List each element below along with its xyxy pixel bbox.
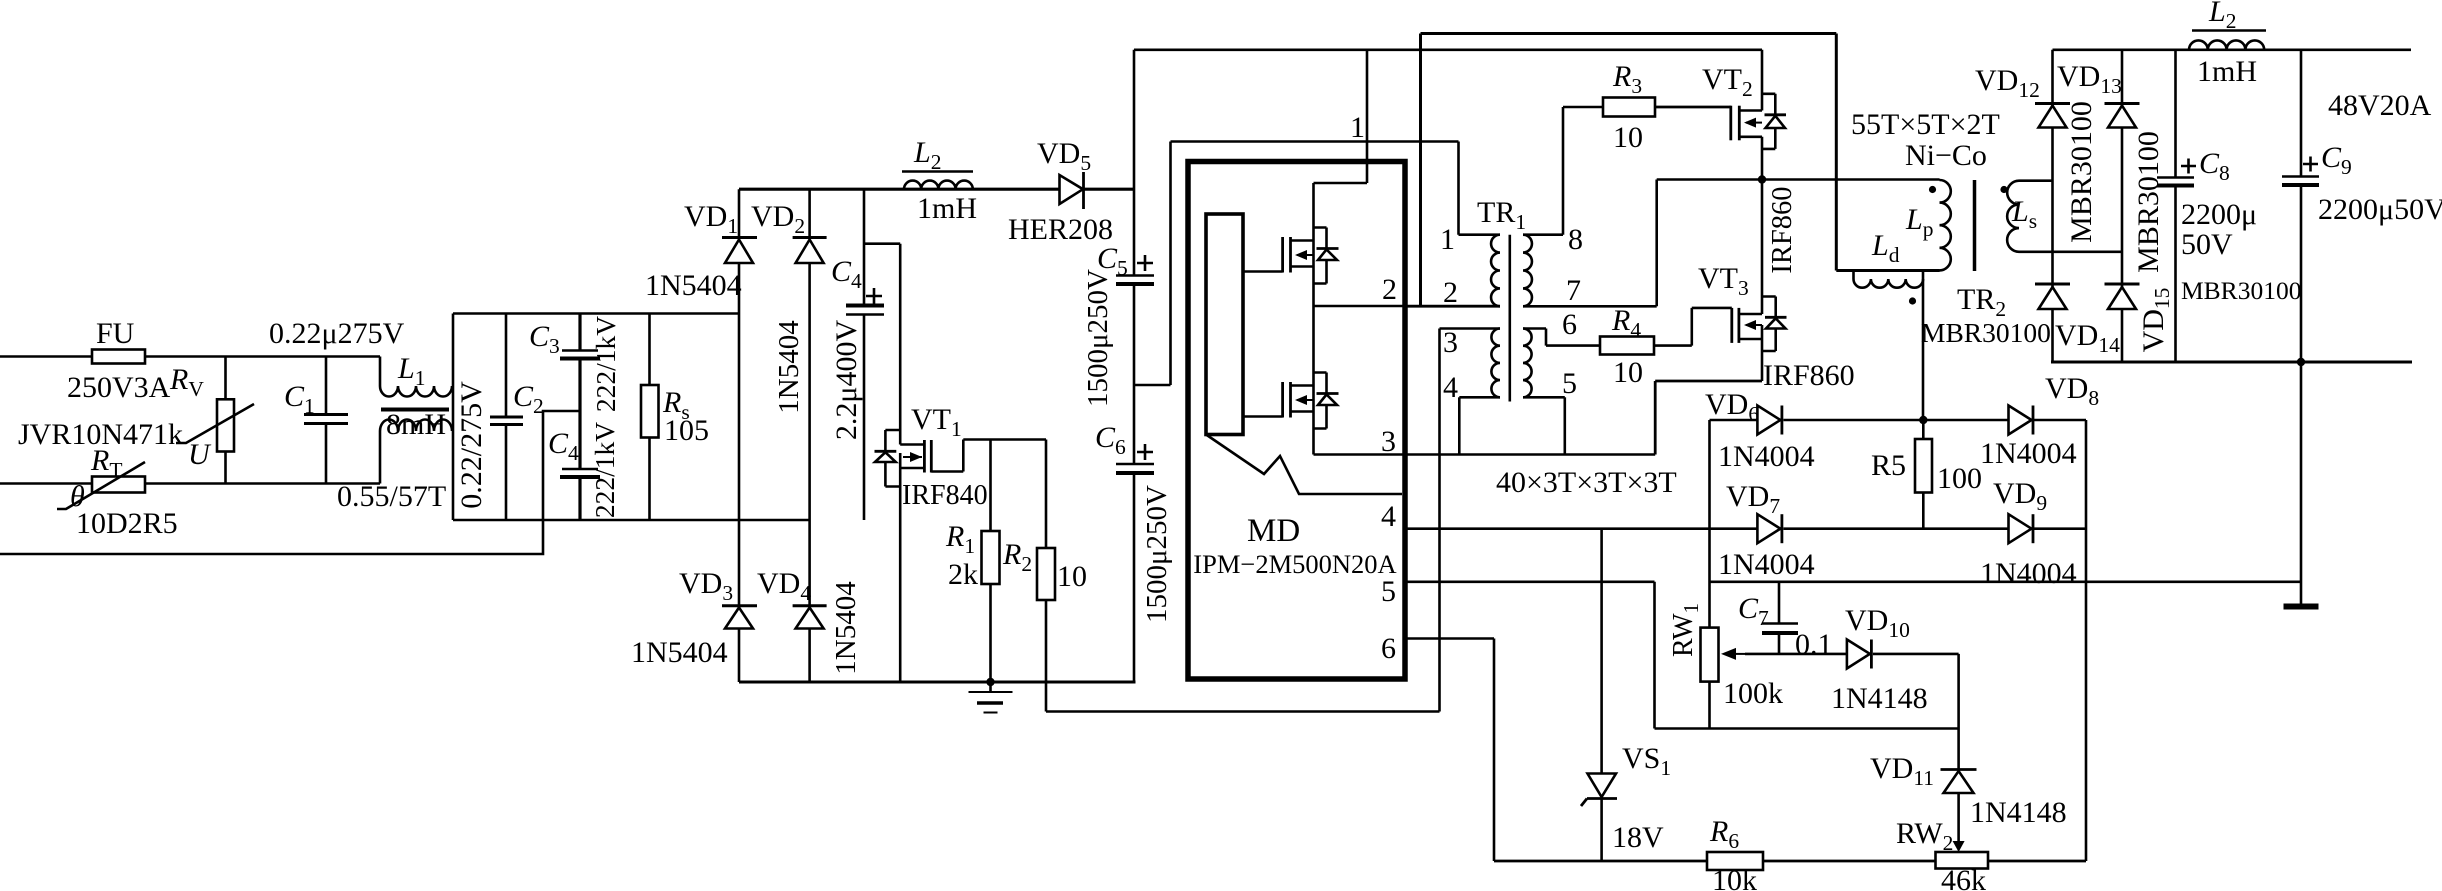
node Ld R5 junction [1919,416,1927,424]
svg-text:100: 100 [1937,462,1982,495]
wire Ld drop [1922,279,1925,420]
label MBR30100 for VD15 [2181,276,2301,305]
svg-text:6: 6 [1381,632,1396,665]
wire bridge left branch [738,189,741,682]
svg-text:MBR30100: MBR30100 [2065,101,2098,243]
pin 3 label TR1 [1443,326,1458,359]
svg-text:50V: 50V [2181,228,2233,261]
pin 8 label TR1 [1568,223,1583,256]
wire VT1 drain link [864,244,900,445]
svg-text:1500μ250V: 1500μ250V [1141,485,1173,623]
svg-text:250V3A: 250V3A [67,371,171,404]
svg-text:0.22μ275V: 0.22μ275V [269,317,405,350]
capacitor C5 1500u250V [1082,50,1154,407]
capacitor C8 2200u 50V [2157,147,2257,261]
capacitor C6 1500u250V [1095,385,1173,682]
resistor R2 10 [1002,440,1087,712]
svg-text:3: 3 [1381,425,1396,458]
wire TR1 pin7 riser [1655,180,1658,307]
pin 6 label MD [1381,632,1396,665]
capacitor C2 0.22/275V [455,314,544,521]
capacitor C3 222/1kV [529,314,621,413]
svg-text:6: 6 [1562,308,1577,341]
varistor RV JVR10N471k [18,357,254,484]
svg-text:2k: 2k [948,558,978,591]
svg-text:1N5404: 1N5404 [631,636,728,669]
label MBR30100 for VD14 [1921,317,2051,348]
svg-text:0.22/275V: 0.22/275V [455,381,488,509]
svg-text:R5: R5 [1871,449,1906,482]
pin 5 label MD [1381,575,1396,608]
wire filter box bottom rail [453,519,810,522]
inductor L2 output 1mH [2189,0,2266,88]
svg-text:1N4148: 1N4148 [1970,796,2067,829]
svg-text:1N4004: 1N4004 [1980,557,2077,590]
svg-text:18V: 18V [1612,821,1664,854]
wire VT2 VT3 column [1761,50,1764,381]
svg-text:105: 105 [664,414,709,447]
label 55Tx5Tx2T Ni-Co [1851,108,2000,172]
wire switch-node Lp top [1657,178,1940,181]
svg-text:1500μ250V: 1500μ250V [1082,269,1114,407]
svg-text:1mH: 1mH [917,192,977,225]
wire MD pin2 to TR1 pin2 [1405,305,1500,308]
svg-text:2: 2 [1443,276,1458,309]
capacitor C4 222/1kV [548,359,620,521]
svg-text:0.55/57T: 0.55/57T [337,480,446,513]
inductor L2 boost 1mH [902,136,977,225]
wire TR1 pin1 riser [1457,142,1460,235]
transistor VT2 IRF860 [1655,63,1798,274]
wire output top rail [2053,48,2412,51]
svg-text:48V20A: 48V20A [2328,89,2432,122]
svg-text:MBR30100: MBR30100 [2181,276,2301,305]
svg-text:2.2μ400V: 2.2μ400V [830,320,863,441]
wire MD pin4 line [1405,527,1757,530]
wire VT1 gate rail [963,438,1046,441]
transistor IPM upper MOSFET [1243,228,1339,284]
wire MD pin3 inner [1314,412,1406,455]
svg-text:1mH: 1mH [2197,55,2257,88]
svg-text:2: 2 [1382,273,1397,306]
transformer TR1 winding 8-7 [1523,235,1657,307]
wire Ls top lead [2019,179,2053,182]
svg-text:10k: 10k [1712,864,1757,891]
diode VD4 1N5404 [757,567,862,675]
diode VD13 MBR30100 [2057,60,2165,273]
potentiometer RW1 100k [1668,420,1783,729]
wire TR1 pin3 drop [1438,329,1441,712]
ground [969,682,1013,713]
svg-text:1N4004: 1N4004 [1718,548,1815,581]
resistor R3 10 [1563,60,1731,154]
wire bridge right branch [808,189,811,682]
svg-text:8mH: 8mH [386,408,446,441]
diode VD15 MBR30100 [2105,284,2175,352]
svg-text:MBR30100: MBR30100 [2132,131,2165,273]
label 40x3Tx3Tx3T [1496,466,1677,499]
wire ground rail [739,681,1136,684]
wire VD6 VD8 line [1710,419,2087,422]
wire filter box left edge [452,314,455,521]
wire VD10 cathode drop [1957,654,1960,770]
label TR2 [1957,283,2006,321]
svg-text:1N5404: 1N5404 [830,581,862,675]
wire VD8 cathode drop [2085,420,2088,861]
svg-text:IRF840: IRF840 [902,480,988,511]
transformer TR1 core [1509,235,1512,402]
driver zigzag [1206,435,1402,495]
wire DC+ top link [1134,48,1762,51]
wire MD pin5 line [1405,582,1959,729]
diode VD1 1N5404 [645,200,757,302]
node R1 ground junction [986,678,994,686]
transistor VT1 IRF840 [875,403,988,682]
svg-text:222/1kV: 222/1kV [589,422,620,518]
wire TR1 pin4 drop [1458,397,1461,454]
wire filter box top rail [453,312,739,315]
capacitor C4 2.2u400V [830,189,884,520]
svg-text:0.1: 0.1 [1795,628,1833,661]
svg-text:1N4004: 1N4004 [1718,440,1815,473]
pin 1 label TR1 [1440,223,1455,256]
wire RW1 wiper line [1745,653,1959,656]
pin 2 label TR1 [1443,276,1458,309]
wire output bottom rail [2051,361,2412,364]
svg-text:1: 1 [1440,223,1455,256]
resistor R5 100 [1871,420,1982,529]
wire MD pin1 feed [1314,50,1368,241]
wire TR1 pin5 drop [1564,397,1567,454]
diode VD7 1N4004 [1718,480,1815,581]
pin 4 label MD [1381,500,1396,533]
svg-text:Ni−Co: Ni−Co [1905,139,1987,172]
svg-text:10D2R5: 10D2R5 [76,507,178,540]
wire top rail TR1 pin2 riser [1421,34,1837,307]
wire AC line bottom [0,482,380,485]
resistor R1 2k [945,440,1000,683]
svg-text:IRF860: IRF860 [1763,359,1855,392]
svg-text:FU: FU [96,317,135,350]
node VT2 source junction [1758,175,1766,183]
svg-text:5: 5 [1381,575,1396,608]
resistor R4 10 [1600,304,1692,389]
svg-text:4: 4 [1381,500,1396,533]
capacitor C7 0.1 [1738,583,1833,661]
wire output negative drop terminal [2284,362,2319,607]
resistor R6 10k [1707,815,1763,891]
wire output box column VD12 VD14 [2051,50,2054,364]
svg-text:1: 1 [1350,111,1365,144]
pin 5 label TR1 [1562,367,1577,400]
pin 7 label TR1 [1566,274,1581,307]
inductor Ld saturable [1854,229,1924,305]
wire output negative return [1710,580,2301,583]
capacitor C9 2200u50V [2282,50,2442,362]
svg-text:1N5404: 1N5404 [645,269,742,302]
pin 3 label MD [1381,425,1396,458]
inductor Lp primary TR2 [1905,180,1951,270]
wire DC+ top rail [739,188,1134,191]
svg-text:1N5404: 1N5404 [773,320,805,414]
svg-text:1N4148: 1N4148 [1831,682,1928,715]
svg-text:5: 5 [1562,367,1577,400]
svg-text:7: 7 [1566,274,1581,307]
transistor VT3 IRF860 [1692,262,1855,392]
resistor Rs 105 [641,314,709,521]
inductor L1 common-mode choke 8mH 0.55/57T [337,352,452,513]
svg-text:10: 10 [1057,560,1087,593]
diode VD8 1N4004 [1980,372,2099,470]
pin 4 label TR1 [1443,371,1458,404]
svg-text:1N4004: 1N4004 [1980,437,2077,470]
diode VD11 1N4148 [1870,752,2067,842]
svg-text:100k: 100k [1723,677,1783,710]
driver block inside MD [1206,214,1243,435]
wire TR1 pin8 riser [1562,107,1565,235]
thermistor RT 10D2R5 [57,444,178,540]
diode VD2 1N5404 [751,200,827,414]
zener VS1 18V [1581,529,1671,861]
wire R2 bottom link [1046,710,1440,713]
module MD IPM-2M500N20A [1188,162,1405,680]
svg-text:10: 10 [1613,356,1643,389]
svg-text:2200μ50V: 2200μ50V [2318,193,2442,226]
diode VD9 1N4004 [1980,477,2086,590]
svg-text:3: 3 [1443,326,1458,359]
svg-text:IPM−2M500N20A: IPM−2M500N20A [1193,549,1396,579]
diode VD6 1N4004 [1705,388,1815,473]
label TR1 [1477,196,1526,234]
diode VD12 MBR30100 [1975,64,2098,243]
potentiometer RW2 46k [1896,817,1988,891]
wire Lp bottom feed [1836,34,1939,271]
svg-text:222/1kV: 222/1kV [590,316,621,412]
svg-text:40×3T×3T×3T: 40×3T×3T×3T [1496,466,1677,499]
svg-text:IRF860: IRF860 [1767,186,1798,273]
diode VD3 1N5404 [631,567,757,669]
fuse FU 250V3A [67,317,171,404]
wire MD pin2 inner [1314,267,1406,307]
diode VD10 1N4148 [1831,604,1928,715]
wire output box column VD13 VD15 [2121,50,2124,364]
svg-text:46k: 46k [1941,864,1986,891]
pin 1 label MD [1350,111,1365,144]
wire VT3 source return [1655,381,1762,455]
pin 6 label TR1 [1562,308,1577,341]
transformer TR2 core [1973,180,1977,271]
wire output box column C8 [2174,50,2177,364]
transistor IPM lower MOSFET [1243,306,1339,429]
svg-text:MD: MD [1247,513,1300,549]
diode VD5 HER208 [1008,137,1113,246]
svg-text:MBR30100: MBR30100 [1921,317,2051,348]
transformer TR1 winding 3-4 [1440,329,1501,398]
svg-text:10: 10 [1613,121,1643,154]
transformer TR1 winding 6-5 [1523,329,1600,398]
diode VD14 MBR30100 [2035,284,2120,357]
transformer TR1 winding 1-2 [1405,235,1500,307]
wire VD7 VD9 line [1783,527,2008,530]
wire bottom feedback rail [1494,860,2086,863]
label 48V20A [2328,89,2432,122]
svg-text:8: 8 [1568,223,1583,256]
wire MD pin3 bus [1405,453,1655,456]
pin 2 label MD [1382,273,1397,306]
wire Ls bottom lead [2019,251,2122,254]
wire earth tap from C3-C4 midpoint [0,411,580,554]
wire C5 bottom to TR1 pin1 [1134,142,1459,386]
node output negative junction [2297,358,2305,366]
capacitor C1 0.22u275V [269,317,405,484]
inductor Ls secondary TR2 [2000,181,2037,252]
svg-text:2200μ: 2200μ [2181,198,2257,231]
svg-text:55T×5T×2T: 55T×5T×2T [1851,108,2000,141]
svg-text:4: 4 [1443,371,1458,404]
wire AC line top [0,355,380,358]
wire MD pin6 line [1405,639,1494,862]
svg-text:U: U [188,438,212,471]
